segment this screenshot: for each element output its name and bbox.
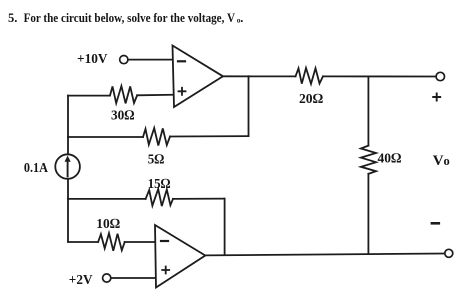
terminal Vo minus <box>445 249 453 257</box>
svg-text:+2V: +2V <box>69 273 93 288</box>
wire 15ohm row left segment <box>68 198 146 200</box>
resistor 20ohm <box>296 68 324 84</box>
title: problem statement text <box>8 11 243 25</box>
wire U1 output to 20ohm <box>223 75 296 77</box>
svg-text:5Ω: 5Ω <box>148 153 165 168</box>
terminal +10V input <box>120 56 128 64</box>
wire 20ohm to Vo+ terminal <box>323 75 436 77</box>
wire U2 output to Vo- terminal <box>205 254 444 256</box>
svg-text:+10V: +10V <box>77 52 108 67</box>
terminal +2V input <box>103 274 111 282</box>
resistor 10ohm <box>98 233 125 251</box>
wire +2V terminal to U2 noninverting input <box>111 277 155 279</box>
svg-text:For the circuit below, solve f: For the circuit below, solve for the vol… <box>24 11 235 25</box>
label minus sign at Vo <box>432 222 439 225</box>
wire 5ohm row right segment <box>170 135 249 137</box>
svg-text:.: . <box>240 11 243 25</box>
svg-text:30Ω: 30Ω <box>111 109 135 124</box>
resistor 15ohm <box>146 189 173 206</box>
op-amp U1 (top) <box>173 46 224 108</box>
wire feedback U2 vertical <box>224 199 226 255</box>
svg-text:Vo: Vo <box>433 153 450 169</box>
label plus sign at Vo <box>433 94 440 101</box>
wire left rail vertical (top section) <box>67 96 69 155</box>
wire 40ohm top segment <box>367 77 369 146</box>
wire left rail to 30ohm resistor <box>68 95 110 97</box>
resistor 30ohm <box>110 86 137 103</box>
resistor 40ohm (vertical) <box>361 146 376 174</box>
svg-text:15Ω: 15Ω <box>148 177 171 192</box>
wire feedback U1 vertical <box>248 76 250 136</box>
wire 40ohm bottom segment <box>367 174 369 254</box>
wire left rail vertical (bottom section) <box>67 179 69 242</box>
resistor 5ohm <box>143 128 170 146</box>
svg-text:10Ω: 10Ω <box>96 217 120 232</box>
wire 10ohm to U2 inverting input <box>125 241 155 243</box>
wire 15ohm row right segment <box>173 198 225 200</box>
svg-text:40Ω: 40Ω <box>378 152 402 167</box>
op-amp U2 (bottom) <box>155 225 205 288</box>
svg-text:5.: 5. <box>8 11 17 25</box>
wire 30ohm resistor to U1 noninverting input <box>137 94 172 97</box>
svg-text:0.1A: 0.1A <box>24 161 49 176</box>
terminal Vo plus <box>436 72 444 80</box>
wire left rail to 10ohm resistor <box>68 241 98 243</box>
svg-text:20Ω: 20Ω <box>299 92 323 107</box>
wire +10V terminal to U1 inverting input <box>128 59 172 61</box>
current source 0.1A <box>55 154 80 179</box>
wire 5ohm row left segment <box>68 136 143 138</box>
